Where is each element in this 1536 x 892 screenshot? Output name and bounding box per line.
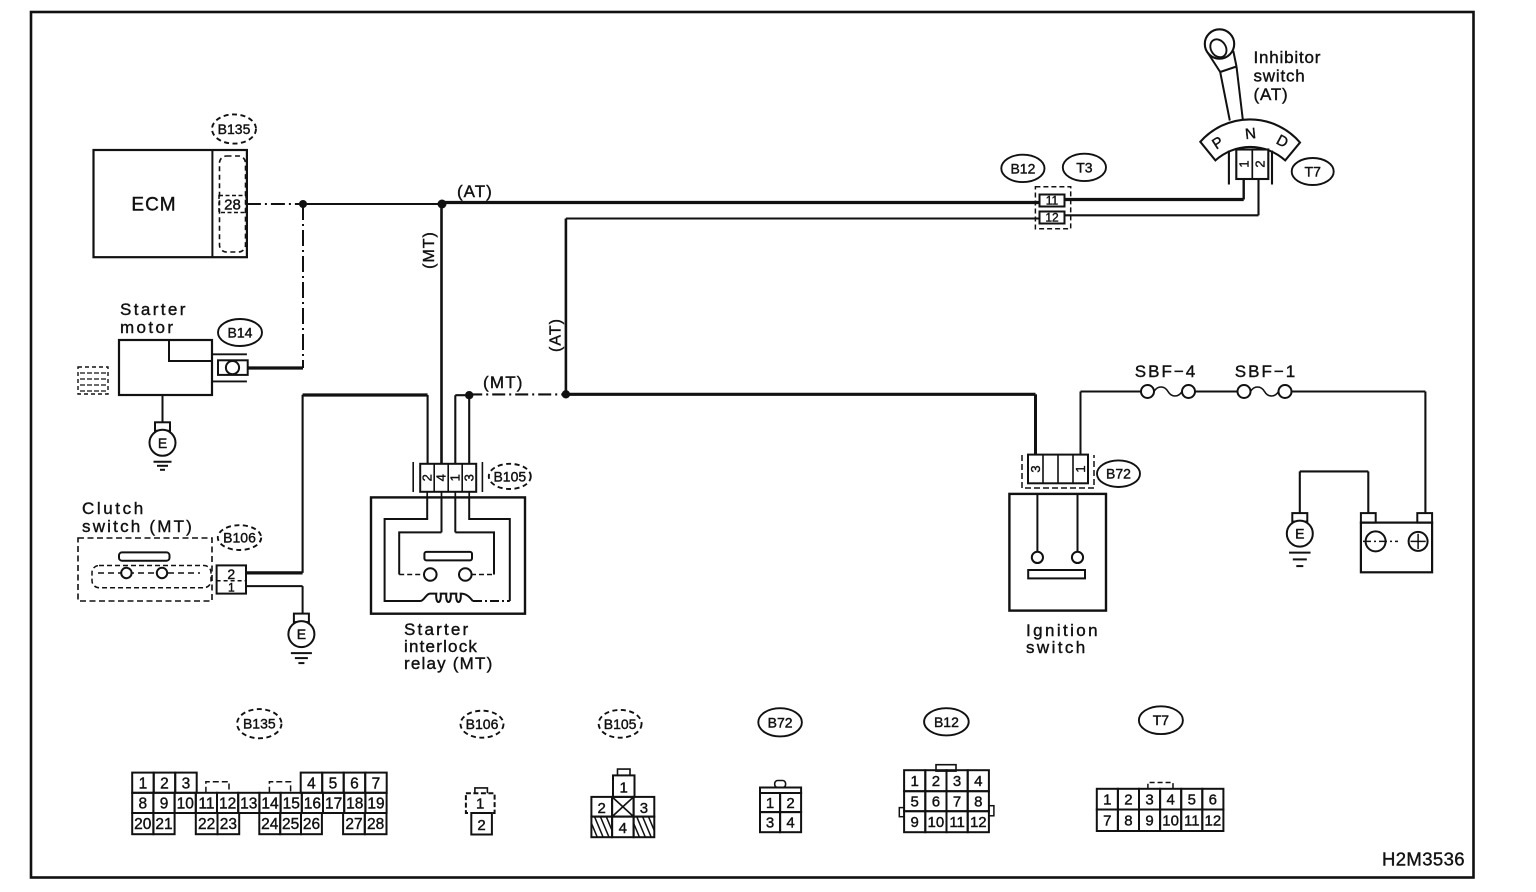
svg-text:1: 1 — [911, 773, 919, 790]
svg-text:26: 26 — [303, 816, 320, 833]
svg-text:3: 3 — [1145, 792, 1153, 809]
svg-text:B12: B12 — [934, 714, 959, 730]
svg-text:3: 3 — [953, 773, 961, 790]
svg-text:6: 6 — [932, 794, 940, 811]
svg-text:10: 10 — [928, 814, 945, 831]
svg-text:22: 22 — [198, 816, 215, 833]
svg-text:28: 28 — [224, 196, 241, 213]
svg-text:switch (MT): switch (MT) — [82, 517, 194, 536]
svg-text:B12: B12 — [1010, 160, 1035, 176]
svg-text:(MT): (MT) — [483, 373, 524, 392]
svg-text:H2M3536: H2M3536 — [1382, 849, 1465, 870]
svg-text:Clutch: Clutch — [82, 499, 146, 518]
svg-text:Inhibitor: Inhibitor — [1254, 48, 1322, 67]
svg-text:3: 3 — [766, 815, 774, 832]
svg-text:1: 1 — [766, 795, 774, 812]
svg-text:B105: B105 — [493, 468, 526, 484]
svg-text:1: 1 — [476, 796, 484, 813]
svg-text:B106: B106 — [466, 716, 499, 732]
svg-text:11: 11 — [1046, 193, 1059, 207]
svg-text:N: N — [1244, 125, 1257, 143]
svg-text:E: E — [158, 435, 167, 451]
svg-text:(AT): (AT) — [457, 182, 493, 201]
svg-text:19: 19 — [367, 795, 384, 812]
svg-text:8: 8 — [974, 794, 982, 811]
svg-text:SBF−4: SBF−4 — [1135, 362, 1197, 381]
svg-text:28: 28 — [367, 816, 384, 833]
svg-text:20: 20 — [134, 816, 152, 833]
svg-text:1: 1 — [1103, 792, 1111, 809]
svg-text:B135: B135 — [243, 716, 276, 732]
svg-text:E: E — [297, 626, 306, 642]
svg-text:16: 16 — [304, 795, 321, 812]
svg-text:1: 1 — [228, 581, 235, 595]
svg-text:1: 1 — [448, 474, 463, 481]
svg-text:2: 2 — [160, 775, 169, 792]
svg-text:5: 5 — [329, 775, 338, 792]
svg-text:3: 3 — [1028, 465, 1043, 472]
svg-text:ECM: ECM — [131, 195, 176, 216]
svg-text:4: 4 — [974, 773, 982, 790]
svg-text:B72: B72 — [1106, 466, 1131, 482]
svg-text:7: 7 — [1103, 813, 1111, 830]
svg-text:11: 11 — [198, 795, 214, 812]
svg-text:2: 2 — [1124, 792, 1132, 809]
svg-text:1: 1 — [620, 780, 628, 797]
svg-text:14: 14 — [261, 795, 279, 812]
svg-text:17: 17 — [325, 795, 342, 812]
svg-text:11: 11 — [949, 814, 965, 831]
svg-text:6: 6 — [1209, 792, 1217, 809]
svg-text:8: 8 — [1124, 813, 1132, 830]
svg-text:1: 1 — [1237, 160, 1252, 167]
svg-text:T7: T7 — [1305, 164, 1322, 180]
svg-text:(AT): (AT) — [548, 318, 565, 352]
svg-text:10: 10 — [1162, 813, 1179, 830]
svg-text:2: 2 — [932, 773, 940, 790]
svg-text:25: 25 — [282, 816, 299, 833]
svg-text:9: 9 — [911, 814, 919, 831]
svg-text:11: 11 — [1184, 813, 1200, 830]
svg-text:21: 21 — [155, 816, 172, 833]
svg-text:4: 4 — [786, 815, 794, 832]
svg-text:9: 9 — [160, 795, 169, 812]
svg-text:3: 3 — [640, 800, 648, 817]
svg-text:4: 4 — [619, 820, 627, 837]
svg-text:7: 7 — [372, 775, 381, 792]
svg-text:5: 5 — [1188, 792, 1196, 809]
svg-text:SBF−1: SBF−1 — [1235, 362, 1297, 381]
svg-text:8: 8 — [138, 795, 147, 812]
svg-text:24: 24 — [261, 816, 279, 833]
svg-text:relay (MT): relay (MT) — [404, 654, 493, 673]
svg-text:switch: switch — [1254, 67, 1306, 86]
svg-text:10: 10 — [177, 795, 195, 812]
svg-text:B72: B72 — [768, 714, 793, 730]
svg-text:3: 3 — [182, 775, 191, 792]
svg-text:2: 2 — [420, 474, 435, 481]
svg-text:6: 6 — [350, 775, 359, 792]
svg-text:18: 18 — [346, 795, 363, 812]
svg-text:2: 2 — [477, 817, 485, 834]
svg-text:1: 1 — [139, 775, 148, 792]
svg-text:15: 15 — [283, 795, 300, 812]
svg-text:(MT): (MT) — [421, 231, 438, 269]
svg-text:motor: motor — [120, 318, 175, 337]
svg-text:27: 27 — [345, 816, 362, 833]
svg-text:4: 4 — [307, 775, 316, 792]
svg-text:1: 1 — [1073, 465, 1088, 472]
svg-text:B14: B14 — [228, 325, 253, 341]
svg-text:7: 7 — [953, 794, 961, 811]
svg-text:B106: B106 — [223, 530, 256, 546]
svg-text:9: 9 — [1145, 813, 1153, 830]
svg-text:4: 4 — [434, 474, 449, 481]
svg-text:13: 13 — [240, 795, 257, 812]
svg-text:23: 23 — [220, 816, 237, 833]
svg-text:12: 12 — [1045, 210, 1059, 224]
svg-text:T7: T7 — [1153, 712, 1170, 728]
svg-text:12: 12 — [1205, 813, 1222, 830]
svg-text:B135: B135 — [218, 121, 251, 137]
svg-text:2: 2 — [598, 800, 606, 817]
svg-text:(AT): (AT) — [1254, 85, 1289, 104]
svg-text:2: 2 — [1253, 160, 1268, 167]
svg-text:5: 5 — [911, 794, 919, 811]
svg-text:3: 3 — [462, 474, 477, 481]
svg-text:4: 4 — [1166, 792, 1174, 809]
svg-text:switch: switch — [1026, 638, 1088, 657]
svg-text:B105: B105 — [604, 716, 637, 732]
svg-text:T3: T3 — [1076, 159, 1093, 175]
svg-text:2: 2 — [786, 795, 794, 812]
svg-text:12: 12 — [970, 814, 987, 831]
svg-text:12: 12 — [219, 795, 236, 812]
svg-text:E: E — [1295, 526, 1304, 542]
svg-text:Starter: Starter — [120, 300, 188, 319]
